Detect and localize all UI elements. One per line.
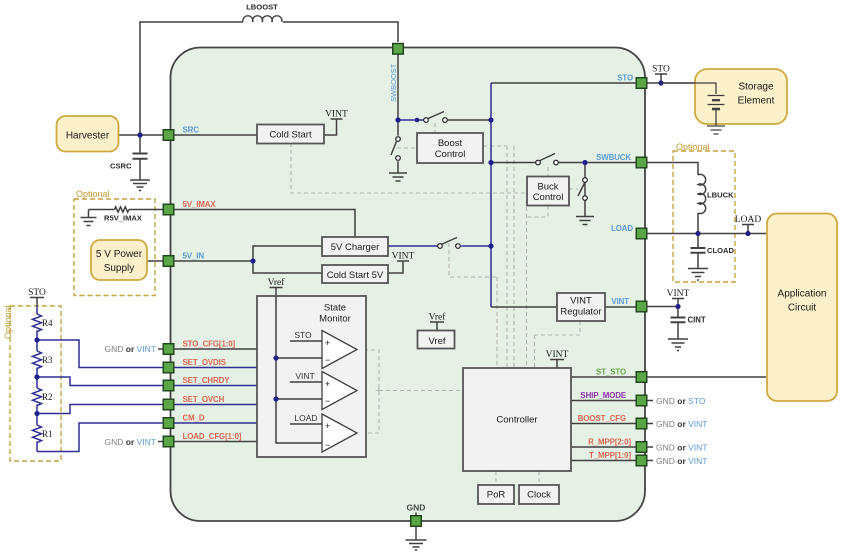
svg-text:Buck: Buck: [537, 182, 558, 193]
svg-text:PoR: PoR: [487, 490, 506, 501]
svg-text:SET_OVDIS: SET_OVDIS: [183, 358, 226, 367]
svg-text:SWBOOST: SWBOOST: [389, 63, 398, 102]
svg-text:R3: R3: [42, 355, 53, 365]
svg-text:STO: STO: [294, 330, 312, 340]
svg-text:GND or VINT: GND or VINT: [105, 344, 157, 354]
svg-text:STO_CFG[1:0]: STO_CFG[1:0]: [183, 340, 236, 349]
svg-text:GND: GND: [407, 503, 426, 513]
svg-text:GND or VINT: GND or VINT: [656, 419, 708, 429]
svg-text:SWBUCK: SWBUCK: [596, 153, 631, 162]
svg-text:LOAD: LOAD: [611, 224, 633, 233]
svg-text:GND or VINT: GND or VINT: [656, 456, 708, 466]
svg-text:ST_STO: ST_STO: [596, 368, 626, 377]
svg-text:VINT: VINT: [570, 296, 592, 307]
svg-text:Optional: Optional: [676, 142, 710, 152]
svg-text:GND or VINT: GND or VINT: [656, 443, 708, 453]
svg-text:Harvester: Harvester: [66, 131, 110, 142]
svg-text:VINT: VINT: [325, 110, 348, 120]
svg-text:LBOOST: LBOOST: [246, 3, 278, 12]
svg-text:Cold Start 5V: Cold Start 5V: [327, 270, 384, 281]
svg-text:VINT: VINT: [295, 371, 314, 381]
svg-text:GND or STO: GND or STO: [656, 396, 706, 406]
svg-text:R_MPP[2:0]: R_MPP[2:0]: [588, 438, 631, 447]
svg-text:Clock: Clock: [527, 490, 551, 501]
svg-text:LOAD: LOAD: [294, 413, 317, 423]
svg-text:GND or VINT: GND or VINT: [105, 437, 157, 447]
svg-text:−: −: [325, 396, 330, 406]
svg-text:LOAD_CFG[1:0]: LOAD_CFG[1:0]: [183, 432, 242, 441]
svg-text:−: −: [325, 440, 330, 450]
svg-text:T_MPP[1:0]: T_MPP[1:0]: [589, 451, 631, 460]
svg-text:Application: Application: [778, 289, 827, 300]
svg-text:SET_OVCH: SET_OVCH: [183, 395, 225, 404]
svg-text:CSRC: CSRC: [110, 162, 132, 171]
svg-text:Vref: Vref: [429, 312, 447, 323]
svg-text:Control: Control: [435, 149, 466, 160]
svg-text:CLOAD: CLOAD: [707, 246, 735, 255]
svg-text:STO: STO: [617, 74, 633, 83]
svg-text:Monitor: Monitor: [319, 314, 351, 325]
svg-text:Vref: Vref: [268, 277, 286, 288]
svg-text:STO: STO: [28, 288, 46, 298]
svg-text:Vref: Vref: [428, 336, 445, 347]
svg-text:SHIP_MODE: SHIP_MODE: [580, 391, 626, 400]
svg-text:Optional: Optional: [76, 189, 110, 199]
svg-text:LOAD: LOAD: [735, 215, 762, 225]
svg-text:CM_D: CM_D: [183, 414, 205, 423]
svg-text:R5V_IMAX: R5V_IMAX: [104, 214, 142, 223]
svg-text:STO: STO: [652, 65, 670, 75]
svg-text:R1: R1: [42, 429, 53, 439]
svg-text:Regulator: Regulator: [560, 307, 601, 318]
svg-text:VINT: VINT: [392, 252, 415, 262]
svg-text:CINT: CINT: [688, 316, 706, 325]
svg-text:+: +: [325, 338, 330, 348]
svg-text:State: State: [324, 303, 346, 314]
svg-text:VINT: VINT: [611, 297, 629, 306]
svg-text:5V_IN: 5V_IN: [183, 252, 205, 261]
svg-text:Circuit: Circuit: [788, 303, 817, 314]
svg-text:Supply: Supply: [104, 263, 135, 274]
svg-text:SET_CHRDY: SET_CHRDY: [183, 376, 231, 385]
svg-text:BOOST_CFG: BOOST_CFG: [578, 414, 626, 423]
svg-text:Control: Control: [533, 192, 564, 203]
svg-text:5V Charger: 5V Charger: [331, 242, 380, 253]
svg-text:Storage: Storage: [738, 82, 773, 93]
svg-text:LBUCK: LBUCK: [707, 191, 734, 200]
svg-text:Optional: Optional: [3, 305, 13, 339]
svg-text:R2: R2: [42, 392, 53, 402]
svg-text:5 V Power: 5 V Power: [96, 249, 143, 260]
svg-text:Boost: Boost: [438, 138, 463, 149]
svg-text:+: +: [325, 379, 330, 389]
svg-text:SRC: SRC: [183, 126, 200, 135]
svg-text:5V_IMAX: 5V_IMAX: [183, 200, 217, 209]
svg-text:Cold Start: Cold Start: [269, 130, 312, 141]
svg-text:Element: Element: [738, 96, 775, 107]
svg-text:VINT: VINT: [667, 289, 690, 299]
svg-text:+: +: [325, 421, 330, 431]
svg-text:VINT: VINT: [546, 350, 569, 360]
svg-text:Controller: Controller: [496, 415, 537, 426]
svg-text:R4: R4: [42, 318, 53, 328]
svg-text:−: −: [325, 355, 330, 365]
